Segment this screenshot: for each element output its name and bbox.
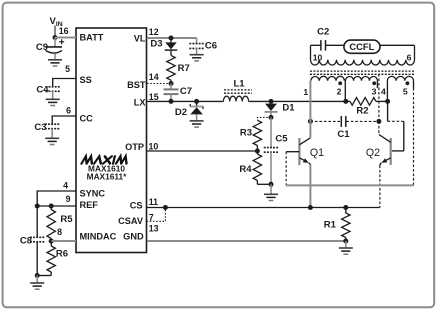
wire CCFL to secondary pin 6: [380, 44, 415, 46]
svg-text:MAX1611*: MAX1611*: [87, 171, 127, 181]
transformer T1 secondary winding pins 10-6: [311, 60, 415, 65]
node junction R3/R4/OTP: [255, 149, 260, 154]
svg-text:C6: C6: [205, 41, 217, 52]
svg-text:BATT: BATT: [80, 32, 104, 42]
resistor R4: [256, 151, 258, 154]
svg-text:D2: D2: [175, 107, 187, 118]
svg-text:5: 5: [403, 87, 408, 97]
U1 right pin labels: [118, 33, 146, 241]
wire VIN down to BATT node: [54, 26, 56, 38]
svg-text:VIN: VIN: [50, 16, 63, 28]
resistor R5: [50, 206, 52, 210]
wire to ground bottom-left: [36, 276, 38, 284]
wire SYNC pin 4 loop to REF node: [37, 191, 76, 206]
svg-text:12: 12: [149, 27, 159, 37]
svg-text:Q2: Q2: [366, 147, 380, 159]
svg-text:BST: BST: [127, 80, 146, 90]
wire BST pin 14 dotted link: [147, 83, 171, 85]
capacitor C1: [340, 116, 342, 127]
wire Q2 emitter dashed down to CS bus: [379, 166, 381, 208]
node junction VIN/BATT/C9: [53, 35, 58, 40]
svg-text:C7: C7: [180, 86, 192, 97]
capacitor C1 row dashed wire left: [310, 120, 340, 122]
svg-text:OTP: OTP: [125, 142, 144, 152]
wire CSAV pin 7 dotted link: [147, 208, 166, 222]
wire down to ground: [270, 184, 272, 194]
wire T1 pin 5 dashed column: [413, 81, 415, 88]
wire T1 pin 2 center feed: [344, 81, 346, 102]
svg-text:10: 10: [313, 52, 323, 62]
transformer T1 primary winding 1-2: [311, 76, 345, 80]
ground below C9: [48, 59, 62, 61]
svg-text:6: 6: [407, 52, 412, 62]
svg-text:CCFL: CCFL: [349, 41, 374, 52]
wire R6 bottom to C8 bottom: [37, 275, 51, 277]
wire REF pin 9: [37, 205, 76, 207]
U1 pin numbers right: [149, 27, 159, 234]
node junction feed/pin2/R2: [343, 99, 348, 104]
wire MINDAC pin 8: [51, 240, 76, 242]
capacitor C5: [270, 117, 272, 147]
wire Q2 collector dashed from C1 node: [378, 121, 380, 134]
resistor R3: [253, 120, 261, 145]
svg-text:MINDAC: MINDAC: [80, 232, 117, 242]
svg-text:R4: R4: [239, 164, 252, 175]
resistor R1: [345, 208, 347, 214]
svg-text:C2: C2: [317, 27, 329, 38]
node junction VL/D3: [169, 36, 174, 41]
svg-text:C5: C5: [275, 134, 288, 145]
capacitor C8: [36, 206, 38, 237]
node junction CS/CSAV: [163, 205, 168, 210]
wire D1 cathode dotted link to R3: [257, 117, 271, 120]
node junction C1 row left / Q1 collector: [308, 119, 313, 124]
ground below C3: [45, 137, 59, 139]
wire OTP pin 10: [147, 150, 257, 152]
svg-text:4: 4: [63, 180, 68, 190]
capacitor C9 polarized: [54, 38, 56, 47]
node junction C8/R6 ground: [35, 273, 40, 278]
node junction R1 / GND rail: [343, 239, 348, 244]
svg-text:R6: R6: [56, 249, 68, 260]
node junction D1/feed: [269, 99, 274, 104]
svg-text:VL: VL: [134, 33, 146, 43]
node junction REF/R5: [49, 204, 54, 209]
svg-text:5: 5: [65, 64, 70, 74]
svg-text:8: 8: [57, 227, 62, 237]
node junction CS bus / R1: [343, 205, 348, 210]
node junction C5/R4 ground: [269, 182, 274, 187]
resistor R6: [50, 241, 52, 246]
transistor Q1: [298, 138, 300, 165]
wire T1 pin 1 / Q1 collector column: [309, 81, 311, 138]
capacitor C7 bootstrap: [170, 84, 172, 90]
wire Q2 base loop from pin 4: [387, 101, 389, 121]
resistor R2: [346, 100, 350, 102]
U1 pin numbers left: [57, 26, 71, 237]
CCFL lamp: [344, 40, 380, 53]
node junction C7/LX: [169, 99, 174, 104]
U1 MAXIM logo: [82, 156, 129, 163]
wire R1 to ground: [345, 241, 347, 248]
svg-text:1: 1: [303, 87, 308, 97]
node junction R2/pin4: [385, 99, 390, 104]
ground below C5/R4: [264, 193, 278, 195]
node junction Q1 emitter / CS bus: [308, 205, 313, 210]
node junction C1 row right / Q2 collector: [376, 119, 381, 124]
svg-text:Q1: Q1: [310, 147, 324, 159]
svg-text:9: 9: [66, 194, 71, 204]
capacitor C4: [45, 86, 60, 88]
wire Royer base return gray rail: [286, 184, 413, 186]
wire SS pin 5 to C4: [53, 79, 76, 87]
svg-text:REF: REF: [80, 200, 99, 210]
capacitor C3: [45, 123, 60, 125]
svg-text:CSAV: CSAV: [118, 216, 144, 226]
svg-text:4: 4: [381, 87, 386, 97]
svg-text:3: 3: [372, 87, 377, 97]
node junction R7/BST/C7: [169, 81, 174, 86]
wire CC pin 6 to C3: [52, 116, 76, 124]
wire BATT node to pin 16: [55, 37, 76, 39]
svg-text:L1: L1: [233, 79, 245, 90]
capacitor C6: [196, 38, 198, 44]
wire GND pin 13 rail: [147, 240, 346, 242]
svg-text:R2: R2: [356, 106, 368, 117]
wire Q1 base dashed column: [285, 152, 287, 186]
transformer T1 feedback winding 5: [387, 76, 413, 80]
svg-text:6: 6: [66, 106, 71, 116]
svg-text:D1: D1: [282, 103, 295, 114]
wire C4 to ground: [52, 91, 54, 99]
diode D2 schottky catch: [196, 101, 198, 106]
svg-text:R7: R7: [178, 63, 190, 74]
inductor L1: [223, 96, 248, 101]
svg-text:GND: GND: [123, 232, 144, 242]
wire C3 to ground: [51, 129, 53, 139]
svg-text:10: 10: [149, 141, 159, 151]
transistor Q2: [390, 138, 392, 165]
svg-text:CS: CS: [130, 200, 143, 210]
op-amp U1 MAX1610 controller IC body: [76, 28, 147, 253]
svg-text:11: 11: [149, 197, 158, 207]
svg-text:R1: R1: [324, 220, 337, 231]
svg-text:C4: C4: [36, 85, 49, 96]
ground below C4: [46, 98, 60, 100]
resistor R7: [167, 55, 175, 80]
svg-text:14: 14: [149, 72, 159, 82]
U1 left pin labels: [80, 32, 117, 241]
svg-text:D3: D3: [150, 39, 162, 50]
capacitor C1 row dashed wire right: [346, 120, 379, 122]
svg-text:SS: SS: [80, 75, 92, 85]
T1 phasing dot winding 3-4: [372, 81, 376, 85]
wire L1 to transformer feed: [249, 100, 346, 102]
wire VL pin 12 rail: [147, 37, 197, 39]
node junction D1 cathode / C5: [270, 112, 272, 117]
svg-text:LX: LX: [134, 98, 147, 108]
svg-text:C3: C3: [34, 122, 46, 133]
svg-text:C8: C8: [20, 236, 32, 247]
ground below R1: [339, 247, 353, 249]
wire dashed column pin3 to C1 right node: [378, 74, 380, 121]
svg-text:15: 15: [149, 92, 159, 102]
transformer T1 core: [310, 70, 415, 72]
svg-text:SYNC: SYNC: [80, 188, 106, 198]
ground bottom-left: [30, 282, 44, 284]
wire C2 to CCFL lamp: [326, 44, 344, 46]
T1 phasing dot winding 1-2: [338, 81, 342, 85]
ground below D2: [190, 120, 204, 122]
diode D3: [170, 38, 172, 42]
capacitor C2: [320, 40, 322, 51]
T1 phasing dot winding 5: [406, 81, 410, 85]
diode D1: [270, 101, 272, 103]
node junction D2/LX: [194, 99, 199, 104]
node junction R5/R6/MINDAC: [49, 239, 54, 244]
node junction SYNC/REF/C8: [35, 204, 40, 209]
svg-text:CC: CC: [80, 114, 94, 124]
svg-text:13: 13: [149, 224, 159, 234]
svg-text:C9: C9: [36, 42, 48, 53]
wire LX pin 15 rail: [147, 100, 223, 102]
ground below C6: [190, 54, 204, 56]
wire secondary to C2: [311, 44, 321, 46]
wire T1 pin 4 down: [386, 81, 388, 102]
svg-text:2: 2: [337, 87, 342, 97]
wire CS pin 11 bus: [147, 207, 380, 209]
svg-text:R5: R5: [60, 214, 73, 225]
svg-text:R3: R3: [240, 128, 252, 139]
inductor L1 core: [224, 89, 252, 91]
wire R4 bottom to C5 bottom: [257, 183, 271, 185]
wire T1 pin 3 stub: [376, 81, 378, 88]
wire Q1 emitter down to CS bus: [309, 165, 311, 208]
transformer T1 primary winding 3-4: [346, 76, 378, 80]
svg-text:C1: C1: [337, 129, 350, 140]
